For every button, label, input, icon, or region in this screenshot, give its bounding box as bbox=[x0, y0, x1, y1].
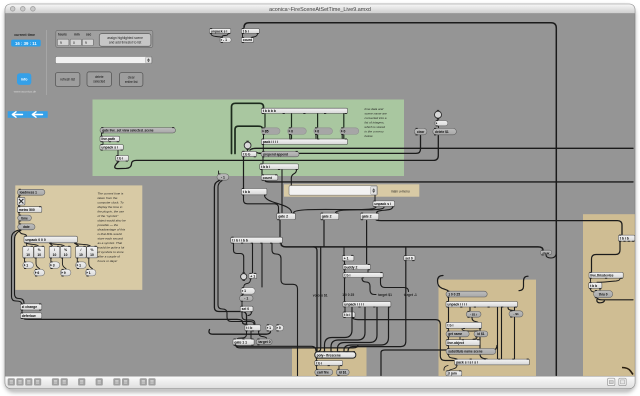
svg-text:unpack i i i i: unpack i i i i bbox=[447, 303, 466, 307]
wire unpackr outs bbox=[449, 307, 515, 358]
svg-text:thru 0: thru 0 bbox=[599, 292, 608, 296]
blue arrow left bbox=[8, 111, 28, 118]
traffic light minimize bbox=[21, 7, 26, 12]
toggle bbox=[17, 196, 25, 206]
svg-text:1: 1 bbox=[244, 289, 246, 293]
object / 10 bbox=[76, 246, 87, 259]
button delete selected bbox=[87, 72, 111, 86]
svg-text:- $1 i: - $1 i bbox=[470, 313, 477, 317]
svg-text:prepend append: prepend append bbox=[263, 152, 288, 156]
svg-text:and add timeslot to list: and add timeslot to list bbox=[109, 41, 141, 45]
svg-text:6: 6 bbox=[37, 271, 39, 275]
message - $1 bbox=[509, 310, 523, 317]
number box 6 bbox=[34, 269, 45, 277]
svg-text:gate 2: gate 2 bbox=[362, 215, 372, 219]
wire liveobj down bbox=[448, 346, 450, 348]
object + 1 bbox=[249, 273, 257, 279]
svg-text:sel 0: sel 0 bbox=[242, 307, 250, 311]
svg-text:loadmess 1: loadmess 1 bbox=[20, 191, 38, 195]
wire deferlow long cord bbox=[24, 319, 271, 334]
svg-text:unpack s i: unpack s i bbox=[374, 202, 391, 206]
svg-text:zl change: zl change bbox=[22, 305, 38, 309]
message 1 0 0 25 bbox=[446, 291, 487, 298]
wire n-cord to t b b b b bbox=[232, 103, 264, 153]
object t b i bbox=[116, 155, 129, 162]
svg-text:t b i: t b i bbox=[344, 273, 350, 277]
traffic light zoom bbox=[31, 7, 36, 12]
wire clear outlet loop bbox=[546, 252, 556, 258]
wire plus1c feed bbox=[343, 247, 346, 264]
object gate 1 1 bbox=[233, 339, 254, 346]
object unpack s i bbox=[209, 28, 230, 34]
message clear bbox=[540, 250, 552, 256]
svg-text:clear: clear bbox=[417, 130, 425, 134]
wire date to unpack bbox=[20, 230, 27, 236]
object t b i bbox=[241, 28, 259, 34]
svg-text:1: 1 bbox=[79, 263, 81, 267]
object t b i bbox=[343, 272, 383, 278]
object zl join bbox=[446, 370, 462, 376]
svg-text:unpack s i: unpack s i bbox=[211, 29, 228, 33]
wire tbib down left bbox=[592, 242, 621, 272]
green panel bbox=[93, 100, 405, 177]
object t b b bbox=[241, 188, 267, 196]
wire unpack out curve 3 bbox=[338, 307, 378, 351]
svg-text:unpack 0 0 0: unpack 0 0 0 bbox=[25, 238, 45, 242]
svg-text:count: count bbox=[263, 176, 273, 180]
message delete $1 bbox=[433, 128, 457, 135]
wire tbbg to tbbmid bbox=[243, 157, 245, 188]
svg-text:live.thisdevice: live.thisdevice bbox=[590, 274, 613, 278]
number box 85 bbox=[261, 127, 280, 135]
window size button 1 bbox=[608, 378, 615, 385]
object buddy 2 bbox=[343, 264, 371, 270]
svg-text:metro 500: metro 500 bbox=[19, 208, 35, 212]
object t b i bbox=[446, 322, 482, 329]
svg-text:/: / bbox=[28, 248, 29, 252]
object poly~ firescene bbox=[315, 351, 356, 359]
svg-text:t b i b: t b i b bbox=[620, 236, 629, 240]
svg-text:pack i i i i: pack i i i i bbox=[263, 140, 278, 144]
wire subst down bbox=[449, 355, 457, 359]
wire unpackc to tbic2 bbox=[344, 307, 346, 311]
wire neg1 feed bbox=[218, 171, 220, 173]
object gate 2 bbox=[277, 213, 296, 221]
wire tbbr down bbox=[591, 289, 601, 292]
object t b b bbox=[589, 282, 602, 289]
wire trigger outs down bbox=[234, 244, 298, 377]
svg-text:+ 1: + 1 bbox=[344, 256, 349, 260]
object unpack 0 0 0 bbox=[24, 236, 77, 244]
svg-text:target $1: target $1 bbox=[378, 293, 392, 297]
svg-text:gate live_set view selected_sc: gate live_set view selected_scene bbox=[102, 129, 154, 133]
wire sel0 down bbox=[242, 312, 255, 324]
svg-text:deferlow: deferlow bbox=[22, 314, 36, 318]
left beige panel bbox=[15, 185, 142, 290]
assign button bbox=[99, 34, 151, 47]
number box 0 bbox=[275, 324, 283, 331]
number box 0 bbox=[340, 127, 359, 135]
wire tbi_c2 right cord bbox=[353, 318, 454, 361]
svg-text:10: 10 bbox=[26, 253, 30, 257]
object t b b b b bbox=[261, 108, 347, 114]
wire tbbbb outlets down bbox=[265, 114, 344, 139]
wire horizontal cord y148 bbox=[250, 148, 633, 150]
wire top cord t b i to far right vertical bbox=[244, 23, 556, 376]
bottom center beige panel bbox=[292, 347, 367, 376]
wire date left big loop bbox=[12, 230, 25, 303]
object count bbox=[241, 37, 253, 43]
object zl change bbox=[20, 303, 42, 310]
object + 1 bbox=[342, 255, 354, 262]
svg-text:%: % bbox=[38, 248, 41, 252]
svg-text:16 : 39 : 11: 16 : 39 : 11 bbox=[15, 41, 37, 46]
svg-text:t b i: t b i bbox=[117, 157, 123, 161]
svg-text:1: 1 bbox=[26, 263, 28, 267]
svg-text:1: 1 bbox=[269, 326, 271, 330]
svg-text:t b b: t b b bbox=[243, 152, 250, 156]
message - 1 bbox=[240, 295, 254, 302]
svg-text:gate 2: gate 2 bbox=[278, 215, 288, 219]
object sel 0 bbox=[404, 255, 415, 261]
wire poly to tbi bbox=[316, 359, 318, 361]
bottom right beige panel bbox=[439, 280, 537, 377]
svg-text:get name: get name bbox=[448, 332, 462, 336]
number box 1 bbox=[241, 287, 256, 295]
wire bang to numbox bbox=[437, 119, 440, 128]
sec number box bbox=[82, 39, 93, 45]
wire n-cord to number box bbox=[235, 126, 262, 153]
wire right feed curve 6 bbox=[381, 346, 497, 376]
wire prepend to tbbi bbox=[262, 157, 264, 163]
object metro 500 bbox=[17, 206, 41, 213]
object t b i bbox=[315, 360, 343, 366]
svg-text:entire list: entire list bbox=[125, 80, 138, 84]
window size button 2 bbox=[619, 378, 626, 385]
object unpack s i bbox=[100, 144, 123, 151]
blue arrow right bbox=[28, 111, 48, 118]
svg-text:0: 0 bbox=[317, 129, 319, 133]
right beige panel bbox=[583, 214, 635, 376]
svg-text:id $1: id $1 bbox=[339, 371, 347, 375]
wire 10025 to unpack bbox=[448, 297, 450, 301]
message loadmess 1 bbox=[17, 189, 45, 196]
object % 10 bbox=[60, 246, 71, 259]
wire horizontal cord y182 from count bbox=[265, 181, 633, 182]
number box 0 bbox=[314, 127, 333, 135]
message call fire bbox=[315, 369, 333, 376]
number box 3 bbox=[49, 261, 60, 269]
svg-text:t b b i: t b b i bbox=[261, 165, 270, 169]
svg-text:live.path: live.path bbox=[101, 137, 115, 141]
wire second loop bbox=[218, 181, 254, 325]
wire vertical sel0 down bbox=[348, 247, 406, 351]
wire vertical gate1 to trigger bbox=[279, 220, 281, 237]
svg-text:date: date bbox=[23, 225, 30, 229]
svg-text:0: 0 bbox=[73, 41, 75, 45]
svg-text:aconica~FireSceneAtSetTime_Liv: aconica~FireSceneAtSetTime_Live9.amxd bbox=[269, 7, 371, 13]
svg-text:- 1: - 1 bbox=[223, 38, 227, 42]
svg-text:target -1: target -1 bbox=[404, 293, 417, 297]
umenu beige strip bbox=[284, 184, 419, 196]
wire livethis down bbox=[591, 279, 621, 283]
svg-text:%: % bbox=[91, 248, 94, 252]
wire loadmess-toggle-metro bbox=[18, 196, 20, 224]
wire m01a down bbox=[472, 318, 488, 360]
svg-text:current time: current time bbox=[14, 33, 35, 37]
number box 1 bbox=[266, 324, 274, 331]
svg-text:t b b b b: t b b b b bbox=[263, 109, 276, 113]
wire vertical gate2 down bbox=[318, 220, 324, 352]
hms panel bbox=[56, 30, 153, 47]
message - $1 i bbox=[466, 311, 481, 318]
wire unpack out curve 2 bbox=[331, 307, 365, 351]
object pack s i s i s i bbox=[455, 359, 530, 366]
svg-text:unpack s i: unpack s i bbox=[101, 146, 118, 150]
object t i b bbox=[245, 324, 261, 331]
svg-text:info: info bbox=[21, 78, 29, 82]
object / 10 bbox=[23, 246, 34, 259]
object unpack s i bbox=[373, 200, 395, 207]
wire gate11 down bbox=[235, 345, 358, 351]
umenu main bbox=[289, 186, 377, 196]
object % 10 bbox=[87, 246, 98, 259]
divider line bbox=[45, 30, 48, 95]
object t b b bbox=[242, 151, 257, 158]
object deferlow bbox=[20, 312, 42, 319]
svg-text:- $1: - $1 bbox=[513, 312, 519, 316]
svg-text:10: 10 bbox=[79, 253, 83, 257]
object count bbox=[261, 174, 278, 181]
svg-text:+ 1: + 1 bbox=[250, 274, 255, 278]
button refresh list bbox=[55, 73, 80, 87]
svg-text:%: % bbox=[64, 248, 67, 252]
svg-text:target 0: target 0 bbox=[258, 340, 270, 344]
svg-text:t b i: t b i bbox=[344, 313, 350, 317]
message get name bbox=[446, 331, 469, 338]
wire loop into 10025 bbox=[438, 276, 529, 291]
message date bbox=[18, 223, 35, 230]
svg-text:gate 2: gate 2 bbox=[322, 215, 332, 219]
number box 0 bbox=[288, 127, 307, 135]
svg-text:9: 9 bbox=[60, 41, 62, 45]
object gate 2 bbox=[320, 213, 339, 221]
wire gate to livepath bbox=[102, 133, 119, 155]
svg-text:0: 0 bbox=[344, 129, 346, 133]
traffic light close bbox=[10, 7, 15, 12]
svg-text:9: 9 bbox=[64, 271, 66, 275]
object gate 2 bbox=[360, 213, 379, 221]
message id $1 bbox=[474, 331, 488, 338]
wire unpack000 outs bbox=[27, 243, 91, 246]
object unpack i i i i bbox=[343, 301, 391, 307]
svg-text:assign highlighted scene: assign highlighted scene bbox=[107, 36, 143, 40]
object unpack i i i i bbox=[446, 301, 518, 308]
svg-text:10: 10 bbox=[37, 253, 41, 257]
number box 1 bbox=[85, 269, 96, 277]
svg-text:3: 3 bbox=[53, 263, 55, 267]
wire cord to clear msg bbox=[257, 136, 421, 154]
message - 1 bbox=[217, 173, 229, 180]
wire zlchange to deferlow bbox=[21, 310, 23, 312]
svg-text:/: / bbox=[54, 248, 55, 252]
wire tbbi to count bbox=[262, 170, 297, 213]
svg-text:t b i: t b i bbox=[243, 29, 249, 33]
svg-text:10: 10 bbox=[64, 253, 68, 257]
svg-text:pack s i s i s i: pack s i s i s i bbox=[456, 360, 478, 364]
object / 10 bbox=[49, 246, 60, 259]
svg-text:poly~ firescene: poly~ firescene bbox=[317, 353, 341, 357]
svg-text:10: 10 bbox=[53, 253, 57, 257]
min number box bbox=[70, 39, 81, 45]
svg-text:1 0 0 25: 1 0 0 25 bbox=[342, 293, 354, 297]
wire cord t b i green to delete $1 bbox=[115, 136, 439, 169]
svg-text:delete $1: delete $1 bbox=[435, 130, 449, 134]
object t b i b bbox=[618, 235, 635, 242]
button clear entire list bbox=[120, 73, 143, 87]
time display bbox=[11, 40, 41, 47]
bang button bng_m bbox=[241, 272, 247, 281]
svg-text:zl join: zl join bbox=[447, 372, 457, 376]
wire nbm chain bbox=[241, 295, 244, 306]
wire unpack out curve 1 bbox=[325, 307, 353, 351]
svg-text:refresh list: refresh list bbox=[60, 78, 75, 82]
number box 9 bbox=[60, 269, 71, 277]
message prepend append bbox=[261, 151, 299, 158]
number box - 1 bbox=[220, 37, 232, 43]
svg-text:min: min bbox=[74, 33, 80, 37]
wire unpackm to gates bbox=[294, 207, 393, 213]
wire tbib outs bbox=[317, 366, 340, 369]
svg-text:t b b: t b b bbox=[243, 190, 250, 194]
svg-text:t i b: t i b bbox=[246, 326, 252, 330]
info button bbox=[17, 73, 31, 85]
bang button bng_g bbox=[244, 141, 251, 150]
bottom toolbar bbox=[5, 376, 635, 388]
wire plus1 down bbox=[244, 279, 251, 287]
svg-text:unpack i i i i: unpack i i i i bbox=[344, 303, 363, 307]
svg-text:t b b: t b b bbox=[590, 284, 597, 288]
wire tbir outs bbox=[449, 329, 479, 331]
svg-text:t b i: t b i bbox=[447, 324, 453, 328]
wire unpack out curve 4 bbox=[344, 307, 389, 351]
top umenu bbox=[55, 57, 152, 64]
svg-text:0: 0 bbox=[279, 326, 281, 330]
wire horizontal cord y220 gate to t b i b bbox=[376, 220, 622, 235]
svg-text:id $1: id $1 bbox=[477, 332, 484, 336]
toolbar icons bbox=[8, 378, 156, 385]
svg-text:1: 1 bbox=[89, 271, 91, 275]
message id $1 bbox=[336, 369, 349, 376]
hours number box bbox=[57, 39, 69, 45]
object live.thisdevice bbox=[589, 272, 623, 279]
svg-text:clear: clear bbox=[543, 251, 551, 255]
object live.object bbox=[446, 339, 480, 346]
message target 0 bbox=[256, 339, 272, 346]
title bar bbox=[5, 4, 635, 14]
object pack i i i i bbox=[261, 139, 347, 146]
wire t b i to count bbox=[243, 34, 258, 37]
svg-text:selected: selected bbox=[93, 79, 105, 83]
svg-text:sec: sec bbox=[86, 33, 92, 37]
wire m01b down bbox=[514, 317, 516, 358]
svg-text:0: 0 bbox=[291, 129, 293, 133]
svg-text:t b i: t b i bbox=[316, 361, 322, 365]
number box empty bbox=[435, 120, 448, 126]
number box 1 bbox=[23, 261, 34, 269]
svg-text:9: 9 bbox=[85, 41, 87, 45]
bang button bng_d bbox=[435, 110, 442, 120]
wire bang to tbb bbox=[247, 149, 249, 151]
svg-text:1 0 0 25: 1 0 0 25 bbox=[448, 292, 460, 296]
message substitute name scene bbox=[446, 348, 496, 355]
svg-text:- 1: - 1 bbox=[244, 297, 248, 301]
wire buddy outs bbox=[345, 270, 369, 272]
svg-text:85: 85 bbox=[265, 129, 269, 133]
svg-text:call fire: call fire bbox=[317, 371, 329, 375]
svg-text:hours: hours bbox=[58, 33, 67, 37]
wire tib outs bbox=[238, 331, 267, 339]
svg-text:/: / bbox=[80, 248, 81, 252]
svg-text:sel 0: sel 0 bbox=[405, 256, 413, 260]
wire tbic outs bbox=[345, 278, 409, 301]
wire vertical buddy feed bbox=[366, 221, 368, 264]
wire umenu to unpack bbox=[374, 195, 376, 200]
svg-text:10: 10 bbox=[90, 253, 94, 257]
message clear bbox=[414, 128, 427, 135]
svg-text:voices $1: voices $1 bbox=[313, 293, 328, 297]
object % 10 bbox=[34, 246, 45, 259]
wire div outs bbox=[25, 258, 93, 269]
svg-text:buddy 2: buddy 2 bbox=[344, 265, 357, 269]
wire tbbmid outs bbox=[244, 195, 292, 212]
svg-text:t i b i i b b: t i b i i b b bbox=[232, 238, 248, 242]
svg-text:The current time istaken from: The current time istaken from thecompute… bbox=[97, 191, 126, 263]
svg-text:www.aconica.de: www.aconica.de bbox=[14, 90, 37, 94]
svg-text:live.object: live.object bbox=[447, 341, 464, 345]
message time bbox=[18, 215, 32, 222]
svg-text:time: time bbox=[21, 216, 28, 220]
object t b b i bbox=[260, 163, 299, 170]
svg-text:substitute name scene: substitute name scene bbox=[448, 350, 483, 354]
message gate live_set view selected_scene bbox=[100, 127, 176, 134]
object t b i bbox=[343, 312, 355, 319]
wire thru0 cord right bbox=[597, 298, 633, 303]
wire long left loop bbox=[214, 181, 246, 325]
wire getname down bbox=[449, 337, 478, 339]
wire vertical branch x313 down bbox=[313, 247, 317, 352]
svg-text:count: count bbox=[243, 38, 253, 42]
object live.path bbox=[100, 136, 120, 143]
svg-text:gate 1 1: gate 1 1 bbox=[234, 340, 247, 344]
message thru 0 bbox=[594, 290, 613, 298]
wire numbox outlets bbox=[264, 135, 343, 139]
wire corner at bottom right beige bbox=[622, 368, 633, 375]
svg-text:- 1: - 1 bbox=[221, 175, 225, 179]
wire horizontal cord y247 to clear bbox=[281, 244, 543, 250]
object sel 0 bbox=[240, 306, 253, 313]
svg-text:main u-menu: main u-menu bbox=[391, 189, 410, 193]
wire unpack to -1 bbox=[211, 34, 228, 37]
wire pack to prepend bbox=[262, 145, 264, 151]
wire pack down bbox=[444, 365, 457, 370]
object t i b i i b b bbox=[231, 237, 283, 244]
number box 1 bbox=[76, 261, 87, 269]
